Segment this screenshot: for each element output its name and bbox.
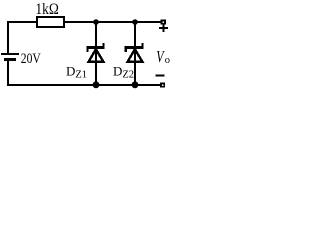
- wire left vertical (source top lead): [7, 21, 9, 54]
- node junction dot top 2: [132, 19, 138, 25]
- wire battery negative lead: [7, 61, 9, 85]
- wire bottom rail: [7, 84, 162, 86]
- terminal output +: [161, 19, 166, 24]
- svg-text:1kΩ: 1kΩ: [35, 1, 58, 18]
- node junction dot top 1: [93, 19, 99, 25]
- node junction dot bottom 2: [132, 81, 139, 88]
- node junction dot bottom 1: [93, 81, 100, 88]
- resistor R 1kohm: [37, 17, 64, 27]
- zener diode DZ1: [87, 22, 105, 84]
- terminal output -: [160, 82, 165, 87]
- zener diode DZ2: [125, 22, 144, 84]
- plus sign: [159, 24, 168, 32]
- svg-text:20V: 20V: [21, 50, 41, 67]
- minus sign: [155, 75, 164, 77]
- svg-text:o: o: [165, 55, 170, 66]
- battery 20V source: [1, 53, 19, 61]
- wire top rail: [7, 21, 162, 23]
